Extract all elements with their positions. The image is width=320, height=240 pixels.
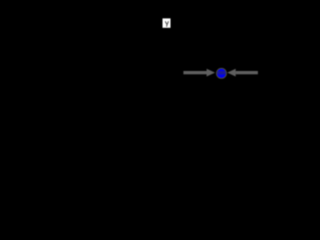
left arrowhead	[207, 69, 216, 77]
wire right arrow shaft	[236, 71, 258, 74]
wire left arrow shaft	[183, 71, 207, 74]
label gamma (photon)	[163, 18, 171, 27]
node particle (blue)	[215, 68, 228, 78]
right arrowhead	[227, 69, 236, 77]
